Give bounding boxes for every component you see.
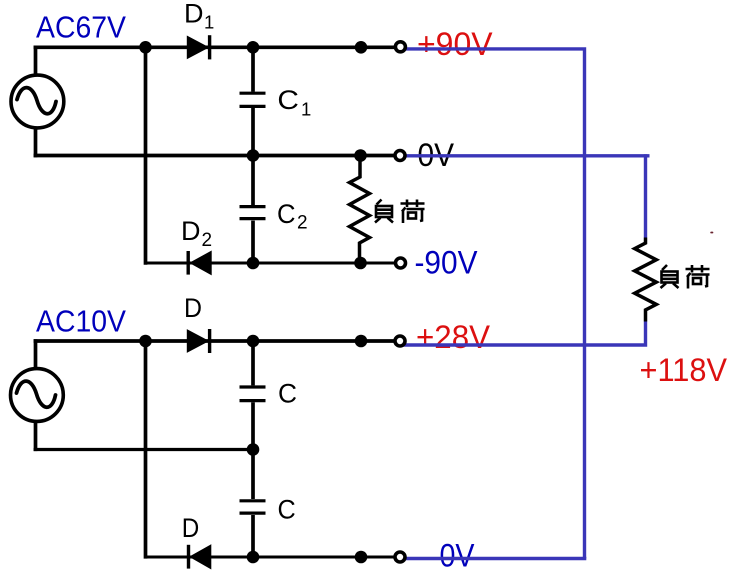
svg-text:D: D bbox=[182, 513, 200, 543]
svg-text:C: C bbox=[278, 495, 296, 525]
svg-text:D: D bbox=[184, 293, 202, 323]
svg-text:AC10V: AC10V bbox=[36, 303, 126, 338]
svg-text:2: 2 bbox=[202, 230, 213, 251]
svg-text:D: D bbox=[181, 216, 201, 246]
svg-text:1: 1 bbox=[204, 12, 214, 33]
svg-text:2: 2 bbox=[297, 213, 308, 234]
svg-text:+118V: +118V bbox=[640, 352, 728, 388]
svg-text:0V: 0V bbox=[440, 538, 476, 574]
svg-text:-90V: -90V bbox=[415, 245, 479, 281]
svg-text:C: C bbox=[277, 199, 296, 229]
svg-text:AC67V: AC67V bbox=[36, 10, 126, 45]
svg-text:C: C bbox=[277, 85, 299, 115]
svg-text:+90V: +90V bbox=[417, 26, 493, 62]
svg-text:1: 1 bbox=[301, 99, 311, 120]
svg-text:D: D bbox=[184, 0, 204, 29]
svg-text:C: C bbox=[278, 379, 297, 409]
svg-text:+28V: +28V bbox=[416, 319, 491, 355]
